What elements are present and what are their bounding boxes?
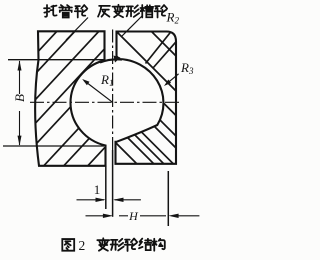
dimension B line upper segment (19, 61, 21, 94)
section hatching of right anti-deformation grooved wheel (0, 0, 290, 170)
dimension 1 left shaft (77, 199, 105, 201)
dimension B arrow up (18, 60, 22, 70)
vertical center line (dashed upper part) (112, 30, 114, 151)
caption char gou (152, 239, 164, 251)
leader line from label fanbianxing-caolun to right wheel (121, 16, 142, 37)
caption char lun (125, 239, 138, 251)
pipe top arc bridging the gap between wheels (100, 59, 122, 62)
upper flange line of left wheel / B top extension line (8, 59, 105, 61)
label char xing (126, 5, 139, 17)
lower flange line of left wheel / B bottom extension line (3, 145, 104, 147)
dimension H left arrow (103, 214, 113, 218)
svg-text:B: B (12, 94, 27, 102)
dimension B arrow down (18, 136, 22, 146)
radius R3 leader line (166, 74, 179, 85)
section hatching of left support wheel (tuoguan wheel) (0, 0, 280, 172)
caption char jie (139, 239, 151, 251)
leader line from label tuoguanlun to left wheel (66, 18, 88, 41)
dimension H middle segment (119, 215, 128, 217)
dimension B line lower segment (19, 111, 21, 145)
svg-text:H: H (128, 209, 139, 223)
label char tuo (of tuoguanlun) (44, 5, 57, 17)
svg-text:2: 2 (79, 238, 86, 253)
caption char tu (figure) (62, 239, 74, 251)
dimension H right arrow (168, 214, 178, 218)
dimension 1 right arrow (113, 198, 123, 202)
junction blob at pipe top (114, 56, 121, 63)
label char lun (75, 5, 88, 17)
outline of left support wheel with groove arc (35, 31, 105, 166)
dimension H segment before right arrow (140, 215, 166, 217)
radius R1 leader line (84, 81, 113, 103)
label char bian (113, 5, 125, 17)
dimension H left shaft (86, 215, 105, 217)
vertical center line extension below wheels (112, 150, 114, 217)
label char cao (140, 5, 153, 17)
label char lun (second) (155, 5, 168, 17)
radius R1 arrowhead (82, 79, 89, 85)
extension line from left wheel right face (105, 166, 107, 209)
dimension 1 right shaft (115, 199, 141, 201)
extension line for H dimension right side (167, 171, 169, 226)
horizontal center line (30, 101, 180, 103)
svg-text:1: 1 (94, 182, 101, 197)
caption char xing (111, 239, 124, 251)
radius R3 arrowhead (164, 80, 171, 87)
dimension H right shaft (177, 215, 200, 217)
label char guan (59, 5, 72, 17)
outline of right grooved wheel with corner radius R2 and groove arc (116, 32, 177, 164)
dimension 1 left arrow (96, 198, 106, 202)
label char fan (of fanbianxing caolun) (98, 6, 110, 17)
caption char bian (97, 238, 109, 250)
